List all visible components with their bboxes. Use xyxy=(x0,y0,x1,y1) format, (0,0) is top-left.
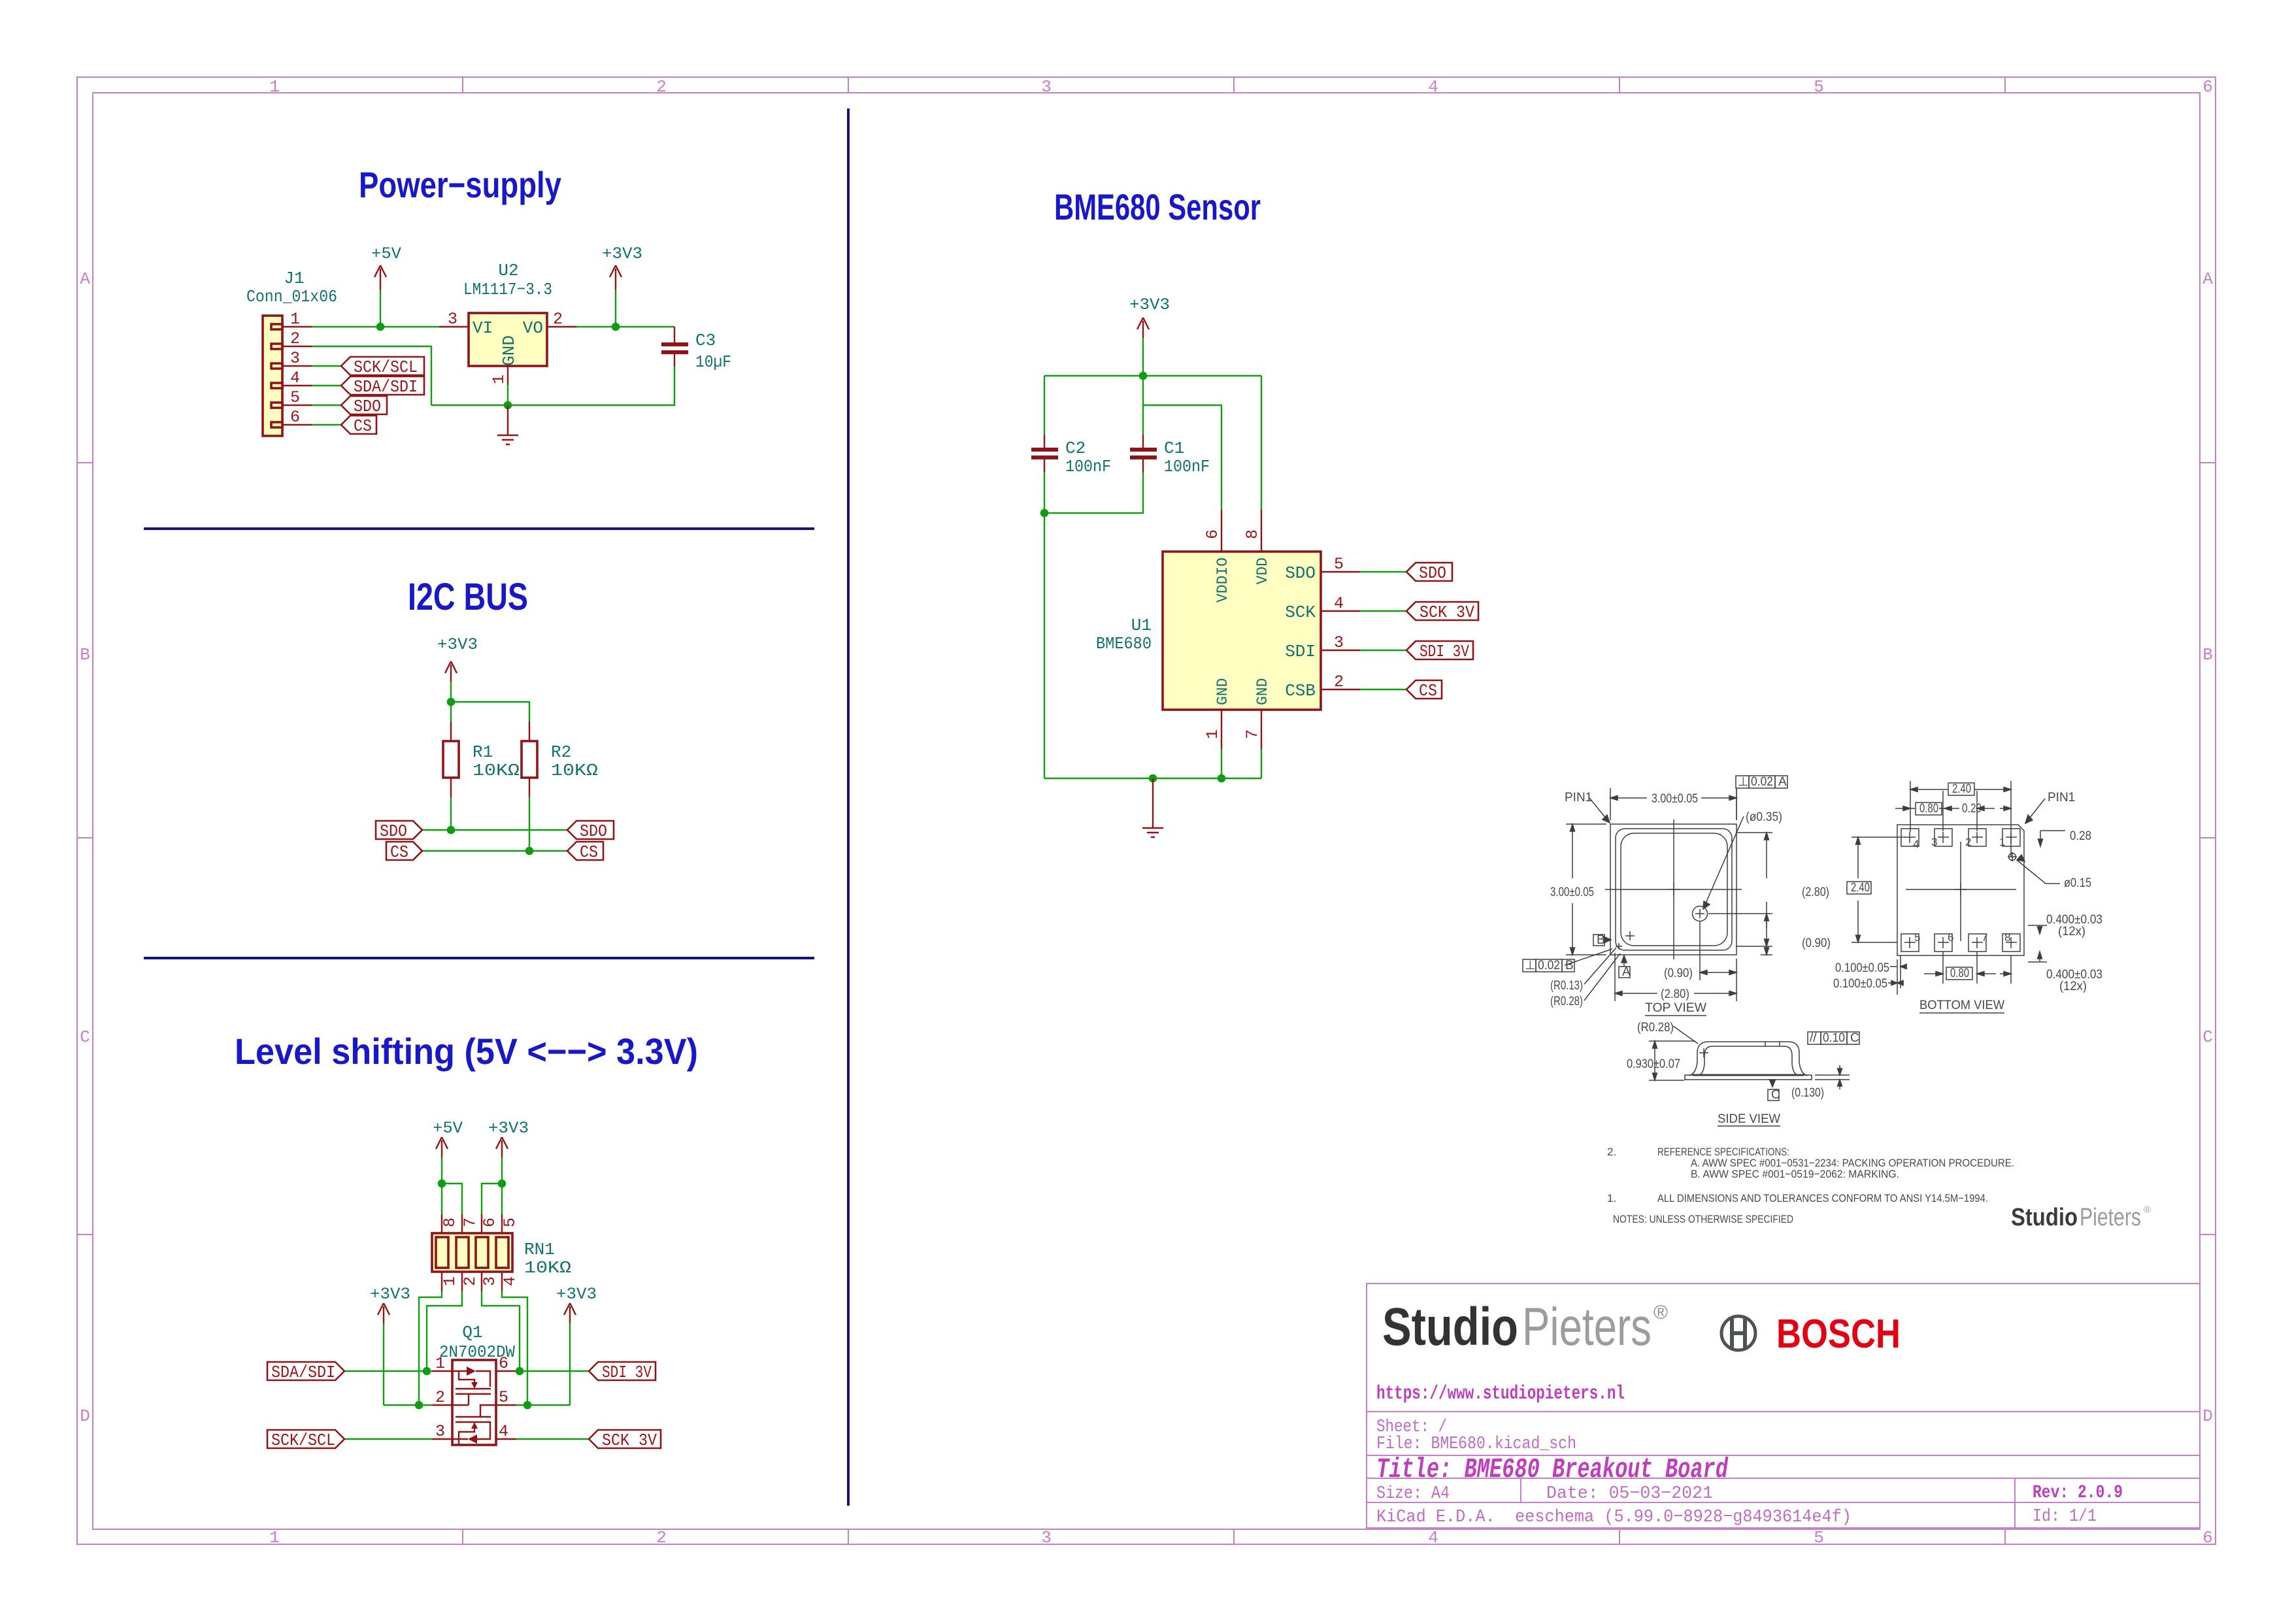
wire C2 bottom down xyxy=(1044,472,1045,778)
TOP VIEW drawing xyxy=(1565,788,1772,1001)
svg-text:Date: 05−03−2021: Date: 05−03−2021 xyxy=(1546,1484,1713,1504)
wire Q1 pin6 to SDI 3V xyxy=(516,1370,589,1372)
center lines bottom view xyxy=(1906,842,2016,941)
svg-text:VDD: VDD xyxy=(1254,557,1271,584)
svg-text:CS: CS xyxy=(580,842,598,862)
0.130 dim xyxy=(1815,1065,1850,1089)
svg-text:100nF: 100nF xyxy=(1164,457,1210,476)
svg-text:BOTTOM VIEW: BOTTOM VIEW xyxy=(1919,999,2004,1012)
wire +3V3 to Q1 pin2 xyxy=(384,1404,432,1406)
svg-text:4: 4 xyxy=(501,1276,520,1286)
svg-text:10KΩ: 10KΩ xyxy=(524,1258,571,1278)
height dim xyxy=(1649,1041,1695,1080)
wire U1 GND pins to rail xyxy=(1221,749,1261,778)
rounded lid outline xyxy=(1616,829,1732,950)
svg-text:5: 5 xyxy=(1814,1528,1824,1548)
global label SDO xyxy=(341,396,387,416)
side profile outer xyxy=(1689,1042,1807,1076)
junction RN1-4/pin5 xyxy=(523,1401,532,1410)
junction GND stem xyxy=(1149,774,1157,783)
svg-text:SCK/SCL: SCK/SCL xyxy=(354,357,418,377)
Q1 bottom FET arrows xyxy=(468,1434,477,1444)
datum A box xyxy=(1619,965,1631,979)
svg-text:0.80: 0.80 xyxy=(1919,802,1938,816)
svg-text:NOTES: UNLESS OTHERWISE SPECIF: NOTES: UNLESS OTHERWISE SPECIFIED xyxy=(1613,1213,1793,1225)
resistor R2 xyxy=(522,721,537,797)
svg-text:C1: C1 xyxy=(1164,439,1184,458)
RN1 top pin lines xyxy=(442,1214,502,1234)
svg-text:C: C xyxy=(80,1027,90,1047)
svg-text:(ø0.35): (ø0.35) xyxy=(1746,810,1782,824)
wire J1 pin5 to label xyxy=(312,405,341,406)
svg-text:2: 2 xyxy=(1334,672,1344,691)
Q1 pin 5 line xyxy=(496,1404,516,1406)
svg-text:File: BME680.kicad_sch: File: BME680.kicad_sch xyxy=(1376,1434,1576,1454)
junction +3V3 node xyxy=(1139,372,1148,380)
svg-text:6: 6 xyxy=(2202,77,2213,97)
zone number labels top xyxy=(269,77,2213,97)
datum B arrow xyxy=(1605,939,1606,940)
fcf bottom-left leader xyxy=(1565,949,1612,965)
svg-text:1: 1 xyxy=(440,1276,459,1286)
global label CS xyxy=(341,416,376,436)
U1 pin 6 VDDIO line xyxy=(1221,510,1222,552)
svg-text:Q1: Q1 xyxy=(462,1323,482,1342)
junction +5V xyxy=(438,1180,446,1188)
svg-text:6: 6 xyxy=(499,1354,508,1373)
zone tick marks top xyxy=(463,77,2005,93)
svg-text:ø0.15: ø0.15 xyxy=(2064,876,2091,890)
wire U2 VO to +3V3 and C3 xyxy=(576,326,674,327)
zone letter labels left xyxy=(80,269,90,1426)
svg-text:3: 3 xyxy=(448,310,457,329)
svg-text:Rev: 2.0.9: Rev: 2.0.9 xyxy=(2033,1483,2123,1503)
svg-text:2: 2 xyxy=(290,329,300,348)
RN1 resistor elements xyxy=(436,1237,508,1268)
ground symbol (BME) xyxy=(1142,778,1163,837)
junction at +5V node xyxy=(376,323,385,331)
package outline top view xyxy=(1610,824,1736,955)
wire +3V3 rail to R2 xyxy=(451,702,529,721)
J1 pin contact squares xyxy=(271,324,282,427)
R0.28 leader xyxy=(1673,1026,1698,1044)
capacitor C2 xyxy=(1031,435,1058,472)
title block outline xyxy=(1367,1284,2200,1528)
plus mark xyxy=(1699,1048,1708,1057)
top dim 2.40 xyxy=(1910,781,2011,856)
corner mark xyxy=(1625,931,1635,940)
svg-text:SDO: SDO xyxy=(354,397,381,416)
J1 pin numbers xyxy=(290,310,300,427)
svg-text:SDO: SDO xyxy=(580,821,607,841)
svg-text:B: B xyxy=(1565,959,1574,972)
svg-text:3.00±0.05: 3.00±0.05 xyxy=(1550,886,1594,899)
bottom dim 0.80 xyxy=(1924,952,2011,984)
svg-text:5: 5 xyxy=(1334,555,1344,574)
svg-text:B: B xyxy=(80,645,90,665)
svg-text:C: C xyxy=(1771,1088,1780,1102)
junction at +3V3 node xyxy=(612,323,620,331)
svg-text:10KΩ: 10KΩ xyxy=(551,761,598,780)
Q1 pin 4 line xyxy=(496,1438,516,1440)
title block column divider size/date xyxy=(1520,1478,1521,1502)
svg-text:SDI 3V: SDI 3V xyxy=(602,1363,652,1382)
Q1 internals bottom FET xyxy=(452,1405,496,1445)
center mark xyxy=(1667,883,1680,896)
svg-text:BME680: BME680 xyxy=(1096,634,1152,654)
svg-text:®: ® xyxy=(2144,1204,2151,1216)
svg-text:2.40: 2.40 xyxy=(1851,881,1870,895)
bottom view dimension texts xyxy=(1833,782,2102,993)
svg-text:D: D xyxy=(80,1406,90,1426)
svg-text:SCK 3V: SCK 3V xyxy=(1420,603,1474,622)
power symbol +3V3 (I2C) xyxy=(437,635,478,702)
power symbol +3V3 (right) xyxy=(556,1285,597,1405)
wire Q1 pin4 to SCK 3V xyxy=(516,1438,589,1440)
RN1 bottom pin lines xyxy=(442,1272,502,1291)
wire RN1 pin4 to pin5 net xyxy=(502,1291,527,1405)
global label CS (right) xyxy=(567,842,603,862)
wire +5V branch to RN1 pin 7 xyxy=(442,1184,462,1214)
wire inner rail C1 to VDDIO xyxy=(1143,405,1221,510)
Q1 pin 6 line xyxy=(496,1370,516,1372)
svg-text:100nF: 100nF xyxy=(1065,457,1111,476)
svg-text:(R0.28): (R0.28) xyxy=(1550,995,1583,1008)
svg-text:D: D xyxy=(2202,1406,2213,1426)
wire SDO bus xyxy=(422,829,567,831)
StudioPieters logo xyxy=(1382,1297,1668,1357)
junction C2/C1 xyxy=(1040,509,1049,518)
svg-text:GND: GND xyxy=(1214,678,1231,705)
svg-text:B: B xyxy=(1597,933,1605,947)
datum B box xyxy=(1593,933,1605,947)
svg-text:0.100±0.05: 0.100±0.05 xyxy=(1833,977,1887,991)
title block column divider rev xyxy=(2014,1478,2016,1528)
wire +3V3 to C1 xyxy=(1142,376,1144,435)
wire J1 pin2 to GND rail xyxy=(312,346,431,405)
svg-text:1: 1 xyxy=(290,310,300,329)
junction at U2 GND xyxy=(504,401,512,410)
svg-text:0.20: 0.20 xyxy=(1962,802,1982,816)
U1 pin 2 CSB line xyxy=(1321,689,1360,690)
fcf leader top right xyxy=(1736,788,1737,820)
svg-text:U2: U2 xyxy=(498,261,518,280)
wire SCK/SCL to Q1 pin3 xyxy=(344,1438,432,1440)
svg-text:R1: R1 xyxy=(473,742,493,762)
wire RN1 pin2 to SDA(1) net xyxy=(427,1291,462,1371)
svg-text:0.930±0.07: 0.930±0.07 xyxy=(1627,1057,1680,1071)
svg-text:+3V3: +3V3 xyxy=(1129,295,1170,314)
svg-text:LM1117−3.3: LM1117−3.3 xyxy=(463,280,552,299)
Bosch logo symbol xyxy=(1721,1316,1755,1350)
svg-text:+5V: +5V xyxy=(371,244,401,263)
svg-text:0.28: 0.28 xyxy=(2070,829,2091,843)
index hole xyxy=(2009,853,2016,861)
zone letter labels right xyxy=(2202,269,2213,1426)
global label SDO (left) xyxy=(376,821,422,841)
junction at +3V3 xyxy=(447,698,456,706)
svg-text:Level shifting (5V <−−> 3.3V): Level shifting (5V <−−> 3.3V) xyxy=(235,1031,698,1072)
svg-text:5: 5 xyxy=(501,1218,520,1227)
svg-text:(0.90): (0.90) xyxy=(1802,936,1831,950)
right dimension (0.90) xyxy=(1761,914,1772,955)
svg-text:5: 5 xyxy=(290,388,300,407)
dim 0.80 top xyxy=(1895,791,1959,831)
svg-text:PIN1: PIN1 xyxy=(1565,791,1592,804)
junction +3V3 xyxy=(498,1180,507,1188)
U1 pin 4 SCK line xyxy=(1321,610,1360,612)
svg-text:PIN1: PIN1 xyxy=(2048,791,2075,804)
svg-text:8: 8 xyxy=(2004,931,2010,944)
wire rail to C2 xyxy=(1044,376,1045,435)
wire J1 pin6 to label xyxy=(312,424,341,425)
wire U2 GND to rail xyxy=(507,385,508,405)
svg-text:https://www.studiopieters.nl: https://www.studiopieters.nl xyxy=(1376,1383,1625,1405)
title block row line 3 xyxy=(1367,1478,2200,1479)
svg-text:2.40: 2.40 xyxy=(1952,782,1971,796)
center mark bottom view xyxy=(1954,883,1967,896)
U1 pin 5 SDO line xyxy=(1321,571,1360,572)
svg-text:3: 3 xyxy=(1041,77,1052,97)
inner lid outline xyxy=(1621,833,1727,946)
dim 0.28 xyxy=(2040,831,2065,844)
svg-text:0.100±0.05: 0.100±0.05 xyxy=(1835,961,1889,975)
svg-text:A: A xyxy=(1778,775,1787,789)
power symbol +5V (level) xyxy=(433,1119,463,1184)
Q1 pin 3 line xyxy=(432,1438,452,1440)
svg-text:RN1: RN1 xyxy=(524,1240,555,1259)
svg-text:®: ® xyxy=(1653,1302,1668,1323)
section divider line 2 xyxy=(144,957,814,959)
power symbol +5V xyxy=(371,244,401,327)
svg-text:3.00±0.05: 3.00±0.05 xyxy=(1652,792,1698,806)
svg-text:+3V3: +3V3 xyxy=(602,244,642,263)
svg-text:C: C xyxy=(2202,1027,2213,1047)
svg-text:C2: C2 xyxy=(1065,439,1086,458)
power symbol +3V3 (BME) xyxy=(1129,295,1170,376)
svg-text:SDI: SDI xyxy=(1285,642,1316,661)
power symbol +3V3 xyxy=(602,244,642,327)
wire RN1 pin3 to pin6 net xyxy=(482,1291,520,1371)
svg-text:BOSCH: BOSCH xyxy=(1776,1312,1901,1357)
pad crosses bottom xyxy=(1904,937,2017,948)
side profile inner xyxy=(1699,1046,1798,1076)
svg-text:CS: CS xyxy=(390,842,408,862)
svg-text:10KΩ: 10KΩ xyxy=(473,761,520,780)
SIDE VIEW drawing xyxy=(1649,1026,1850,1089)
svg-text:CSB: CSB xyxy=(1285,681,1316,701)
RN1 top pin numbers 8 7 6 5 xyxy=(440,1218,520,1227)
svg-text:4: 4 xyxy=(1913,838,1919,850)
PIN1 leader xyxy=(1589,798,1610,823)
svg-text:2: 2 xyxy=(656,1528,667,1548)
vent hole circle xyxy=(1693,906,1708,921)
svg-text:SDO: SDO xyxy=(1419,563,1446,583)
svg-text:SIDE VIEW: SIDE VIEW xyxy=(1718,1112,1780,1126)
svg-text:1: 1 xyxy=(269,77,280,97)
svg-text:TOP VIEW: TOP VIEW xyxy=(1645,1001,1706,1015)
connector J1 body xyxy=(263,316,282,436)
svg-text:GND: GND xyxy=(499,335,519,366)
global label SDO (BME) xyxy=(1406,563,1452,583)
center lines xyxy=(1605,820,1742,959)
sensor U1 body xyxy=(1163,552,1321,710)
svg-text:7: 7 xyxy=(1243,729,1262,739)
svg-text:C: C xyxy=(1850,1031,1859,1045)
global label SDI 3V (BME) xyxy=(1406,641,1473,661)
junction RN1-2/pin1 xyxy=(423,1367,431,1376)
svg-text:6: 6 xyxy=(2202,1528,2213,1548)
svg-text:B: B xyxy=(2202,645,2213,665)
svg-text:7: 7 xyxy=(1982,931,1987,944)
global label SCK 3V (BME) xyxy=(1406,602,1478,622)
svg-text:J1: J1 xyxy=(284,269,304,288)
svg-text:2: 2 xyxy=(553,310,563,329)
PIN1 leader bottom view xyxy=(2025,799,2045,823)
left dim 2.40 xyxy=(1852,837,1906,942)
wire U1 SDI to label xyxy=(1360,650,1406,651)
wire J1 pin4 to label xyxy=(312,385,341,386)
svg-text:SDO: SDO xyxy=(1285,563,1316,583)
svg-text:GND: GND xyxy=(1254,678,1271,705)
svg-text:VO: VO xyxy=(523,318,543,338)
junction GND pin1 xyxy=(1218,774,1226,783)
U1 pin 8 VDD line xyxy=(1261,510,1262,552)
dia 0.15 leader xyxy=(2017,860,2060,884)
J1 pin lines xyxy=(282,327,312,425)
svg-text:I2C BUS: I2C BUS xyxy=(408,576,528,618)
wire rail to VDD pin 8 xyxy=(1261,376,1262,510)
svg-text:0.10: 0.10 xyxy=(1823,1031,1845,1045)
Q1 internals top FET xyxy=(452,1371,491,1405)
StudioPieters small logo xyxy=(2011,1204,2151,1231)
svg-text:(12x): (12x) xyxy=(2059,980,2087,993)
svg-text:4: 4 xyxy=(499,1422,508,1441)
svg-text:Pieters: Pieters xyxy=(2080,1204,2141,1231)
svg-text:2: 2 xyxy=(461,1276,480,1286)
wire J1 pin3 to label xyxy=(312,365,341,367)
feature control frame 0.02 B xyxy=(1523,959,1574,972)
U1 pin 7 GND line xyxy=(1261,710,1262,749)
global label SDI 3V xyxy=(589,1362,656,1382)
capacitor C3 xyxy=(661,327,688,367)
svg-text:6: 6 xyxy=(1948,931,1953,944)
svg-text:R2: R2 xyxy=(551,742,571,762)
wire U1 SDO to label xyxy=(1360,571,1406,572)
svg-text:ALL DIMENSIONS AND TOLERANCES: ALL DIMENSIONS AND TOLERANCES CONFORM TO… xyxy=(1657,1192,1988,1204)
svg-text:10µF: 10µF xyxy=(695,352,731,372)
svg-text:+3V3: +3V3 xyxy=(370,1285,410,1304)
wire C1 bottom to C2 line xyxy=(1044,472,1143,513)
svg-text:Studio: Studio xyxy=(2011,1204,2078,1231)
svg-text:⊥: ⊥ xyxy=(1738,775,1749,789)
transistor Q1 body xyxy=(452,1360,496,1445)
top dimension xyxy=(1610,788,1736,820)
power symbol +3V3 (left) xyxy=(370,1285,410,1405)
wire U1 SCK to label xyxy=(1360,610,1406,612)
svg-text:3: 3 xyxy=(1931,836,1937,848)
svg-text:A: A xyxy=(2202,269,2213,289)
global label CS (BME) xyxy=(1406,680,1442,701)
junction R2/CS xyxy=(525,847,534,855)
top seam marks xyxy=(1765,1042,1780,1046)
svg-text:(12x): (12x) xyxy=(2058,925,2085,938)
wire R2 bottom to CS line xyxy=(529,797,530,851)
Q1 pin 1 line xyxy=(432,1370,452,1372)
wire U1 CSB to label xyxy=(1360,689,1406,690)
svg-text:SDI 3V: SDI 3V xyxy=(1420,642,1469,661)
svg-text:(0.90): (0.90) xyxy=(1664,967,1693,980)
pads top row xyxy=(1901,829,1919,846)
package outline bottom view xyxy=(1897,825,2024,955)
pads bottom row xyxy=(1901,934,1919,952)
svg-text:SCK/SCL: SCK/SCL xyxy=(271,1431,335,1450)
wire R1 bottom to SDO line xyxy=(450,797,452,830)
U2 pin 3 line xyxy=(439,326,469,327)
regulator U2 body xyxy=(469,313,547,366)
svg-text:0.80: 0.80 xyxy=(1950,967,1969,980)
svg-text:1: 1 xyxy=(1203,729,1222,739)
svg-text:0.02: 0.02 xyxy=(1751,775,1773,789)
svg-text:1.: 1. xyxy=(1607,1192,1616,1204)
svg-text:+3V3: +3V3 xyxy=(556,1285,597,1304)
wire +3V3 rail xyxy=(1044,375,1261,376)
title block row line 2 xyxy=(1367,1455,2200,1456)
global label SDO (right) xyxy=(567,821,614,841)
base plate xyxy=(1685,1075,1812,1080)
zone number labels bottom xyxy=(269,1528,2213,1548)
global label CS (left) xyxy=(386,842,422,862)
svg-text:(2.80): (2.80) xyxy=(1802,886,1829,899)
power symbol +3V3 (level top) xyxy=(488,1119,529,1184)
svg-text:+3V3: +3V3 xyxy=(488,1119,529,1138)
right dimension (2.80) xyxy=(1736,833,1772,946)
svg-text:6: 6 xyxy=(480,1218,499,1227)
Q1 pin 2 line xyxy=(432,1404,452,1406)
wire Q1 pin5 to +3V3 right xyxy=(516,1404,570,1406)
capacitor C1 xyxy=(1130,435,1157,472)
svg-text:4: 4 xyxy=(1428,77,1438,97)
zone tick marks left xyxy=(77,463,93,1235)
RN1 bottom pin numbers 1 2 3 4 xyxy=(440,1276,520,1286)
svg-text:3: 3 xyxy=(480,1276,499,1286)
U2 pin 1 (GND) line xyxy=(507,366,508,385)
zone tick marks right xyxy=(2200,463,2216,1235)
svg-text:8: 8 xyxy=(440,1218,459,1227)
svg-text:SCK: SCK xyxy=(1285,603,1316,622)
svg-text:1: 1 xyxy=(435,1354,445,1373)
R013 leaders xyxy=(1584,948,1620,1001)
svg-text:1: 1 xyxy=(1999,836,2005,848)
svg-text:3: 3 xyxy=(435,1422,445,1441)
svg-text:U1: U1 xyxy=(1131,616,1152,635)
title block row line 1 xyxy=(1367,1411,2200,1412)
Q1 top FET arrows xyxy=(467,1367,476,1376)
global label SDA/SDI (level) xyxy=(267,1362,344,1382)
global label SCK 3V xyxy=(589,1430,661,1450)
pad numbers bottom view xyxy=(1913,836,2010,944)
resistor network RN1 body xyxy=(432,1233,512,1272)
dim 0.20 top xyxy=(1977,791,2011,831)
right dim 0.400 (12x) top xyxy=(2028,925,2047,931)
svg-text:4: 4 xyxy=(290,369,300,388)
svg-text:Studio: Studio xyxy=(1382,1297,1518,1357)
wire GND rail xyxy=(1044,778,1261,779)
svg-text:+5V: +5V xyxy=(433,1119,463,1138)
svg-text:C3: C3 xyxy=(695,331,716,350)
section divider vertical line xyxy=(847,108,850,1506)
svg-text:7: 7 xyxy=(461,1218,480,1227)
